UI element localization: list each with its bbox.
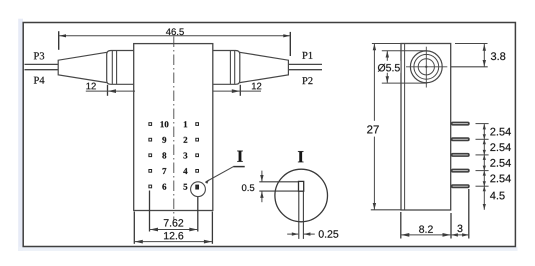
bore horizontal crosshair	[406, 66, 447, 68]
page tint bottom strip	[18, 247, 517, 251]
drawing frame	[23, 23, 515, 247]
dimension D5.5: bottom arrow	[386, 76, 389, 83]
pin row 2: number 2	[184, 137, 188, 143]
detail circle around pin 5	[191, 182, 206, 197]
dimension 12 left: arrow	[108, 89, 116, 93]
detail label underline	[233, 166, 244, 168]
dimension 0.25: left arrow	[292, 232, 299, 235]
pitch arrows tick3	[483, 150, 486, 160]
side pin 5	[451, 184, 470, 188]
pin row 3: square 3	[196, 154, 199, 157]
dimension 27: top arrow	[373, 44, 376, 51]
left collimator cone	[58, 52, 107, 82]
pin pitch extension tick 2	[476, 138, 489, 140]
pin row 1: number 1	[184, 121, 187, 127]
dimension D5.5: value backing	[377, 61, 401, 73]
pitch arrows tick2	[483, 134, 486, 144]
dimension 0.25: right pin-edge extension	[302, 191, 304, 239]
dimension 12.6: dimension line	[134, 241, 212, 243]
dimension 8.2: right arrow	[443, 233, 451, 237]
dimension 0.5: lower leader	[261, 191, 263, 202]
dimension 12.6: left extension line	[133, 212, 135, 244]
dimension 0.25: value	[319, 230, 339, 237]
pin row 5: number 5	[184, 184, 188, 190]
dimension D5.5: bottom extension line	[382, 82, 428, 84]
dimension 0.5: upper leader	[261, 171, 263, 182]
dimension 27: top extension line	[372, 43, 403, 45]
dimension 0.5: value	[242, 184, 254, 191]
label P3	[34, 52, 44, 59]
dimension 12.6: right extension line	[211, 212, 213, 244]
right sleeve line 2	[229, 51, 231, 85]
dimension 27: bottom arrow	[373, 203, 376, 210]
dimension 3.8: top extension line	[455, 43, 488, 45]
side bottom: right extension line (pin tips)	[468, 189, 470, 239]
dimension D5.5: top extension line	[382, 50, 428, 52]
dimension 2.54 value 3	[490, 159, 511, 167]
pin pitch extension tick 4	[476, 170, 489, 172]
left collimator sleeve	[107, 51, 134, 85]
dimension 12.6: left arrow	[135, 240, 143, 244]
label P1	[302, 52, 312, 59]
dimension 12 right: dimension line	[213, 90, 262, 92]
collimator bore middle circle	[414, 54, 439, 79]
dimension 0.25: right arrow	[304, 232, 311, 235]
dimension 2.54 value 2	[490, 143, 511, 151]
side bottom: left extension line	[400, 212, 402, 239]
dimension 3.8: value	[491, 52, 505, 60]
dimension 0.5: top extension line	[259, 181, 298, 183]
dimension 12.6: right arrow	[204, 240, 212, 244]
left sleeve line 1	[111, 51, 113, 85]
pitch arrow top	[483, 124, 486, 130]
page tint left strip	[18, 19, 23, 251]
dimension 0.5: upper arrow	[260, 175, 263, 182]
right sleeve line 1	[234, 51, 236, 85]
pin row 4: square 7	[149, 170, 152, 173]
bore center dot	[425, 66, 427, 68]
pitch arrows tick5	[483, 181, 486, 191]
dimension 27: dimension line lower segment	[373, 137, 375, 210]
right collimator sleeve	[213, 51, 240, 85]
dimension 46.5: left extension line	[58, 31, 60, 50]
dimension 46.5: left arrow	[59, 34, 66, 37]
pin pitch dimension line	[483, 124, 485, 210]
dimension 7.62: right arrow	[189, 228, 197, 232]
side pin 2	[451, 137, 470, 141]
dimension 3: value	[457, 225, 462, 232]
collimator bore outer circle	[410, 51, 442, 83]
pin row 5: number 6	[162, 184, 166, 190]
dimension 3: left arrow	[451, 233, 458, 236]
side view body outline	[401, 44, 451, 211]
pin pitch extension tick 5	[476, 185, 489, 187]
pin row 5: square 5	[196, 185, 199, 189]
fiber pigtail P2	[289, 69, 322, 71]
pitch arrow bottom	[483, 204, 486, 210]
dimension 27: value	[367, 125, 379, 133]
side pin 1	[451, 122, 470, 126]
pin row 5: square 6	[149, 185, 152, 188]
dimension 8.2: dimension line	[401, 234, 451, 236]
dimension 12 left: extension line	[107, 85, 109, 96]
dimension 8.2: left arrow	[401, 233, 409, 237]
label P2	[302, 77, 312, 84]
pin row 4: square 4	[196, 170, 199, 173]
dimension 7.62: left extension line	[149, 191, 151, 232]
dimension 8.2: value	[419, 225, 433, 232]
dimension 12 right: value	[252, 83, 261, 90]
pin pitch extension tick 1	[476, 123, 489, 125]
pitch arrows tick4	[483, 166, 486, 176]
dimension 7.62: right extension line	[197, 197, 199, 232]
dimension 3: dimension line	[451, 234, 469, 236]
dimension 0.5: lower arrow	[260, 191, 263, 198]
switch body outline (top view)	[134, 44, 213, 211]
dimension 4.5 value	[490, 192, 505, 200]
dimension 3.8: bottom extension line	[451, 66, 488, 68]
dimension 0.5: bottom extension line	[259, 190, 298, 192]
dimension 7.62: value	[164, 219, 183, 226]
pin row 2: square 9	[149, 138, 152, 141]
dimension 7.62: left arrow	[150, 228, 158, 232]
collimator bore inner circle	[418, 59, 434, 75]
pin row 2: square 2	[196, 138, 199, 141]
pin row 3: number 8	[162, 152, 166, 158]
dimension 27: dimension line upper segment	[373, 44, 375, 121]
dimension 27 / 8.2: bottom extension line	[371, 209, 401, 211]
dimension D5.5: top arrow	[386, 51, 389, 58]
dimension 46.5: value	[166, 28, 184, 35]
dimension 12 right: extension line	[239, 85, 241, 96]
dimension 2.54 value 1	[490, 128, 511, 136]
pin row 2: number 9	[162, 137, 166, 143]
pin pitch extension tick 3	[476, 154, 489, 156]
dimension 12 left: dimension line	[86, 90, 135, 92]
detail view circle	[275, 169, 328, 222]
fiber pigtail P4	[25, 69, 59, 71]
dimension 46.5: right arrow	[283, 34, 290, 37]
dimension 46.5: dimension line	[59, 35, 291, 37]
left sleeve line 2	[116, 51, 118, 85]
dimension 3: right arrow	[462, 233, 469, 236]
vertical centerline	[173, 37, 175, 221]
dimension 3.8: dimension line	[483, 44, 485, 67]
dimension 3.8: bottom arrow	[483, 60, 486, 67]
pin row 4: number 7	[163, 168, 167, 174]
pin row 1: number 10	[161, 121, 169, 127]
side pin 4	[451, 169, 470, 173]
dimension 12.6: value	[164, 232, 183, 239]
leader arrowhead	[205, 179, 209, 184]
detail label I with underline	[237, 151, 242, 162]
dimension 0.25: left pin-edge extension	[298, 191, 300, 239]
dimension 2.54 value 4	[490, 175, 511, 183]
pin row 3: number 3	[183, 152, 187, 158]
pin row 4: number 4	[183, 168, 187, 174]
dimension 0.25: left leader	[287, 233, 298, 235]
dimension 0.25: right leader	[304, 233, 315, 235]
pin row 1: square 1	[196, 123, 199, 126]
dimension 12 left: value	[86, 83, 95, 90]
label P4	[34, 77, 45, 84]
dimension 7.62: dimension line	[150, 229, 198, 231]
fiber pigtail P3	[25, 63, 59, 65]
dimension D5.5: dimension line	[386, 51, 388, 83]
side view inner lip line	[404, 44, 406, 211]
pin row 1: square 10	[149, 123, 152, 126]
dimension 12 right: arrow	[232, 89, 240, 93]
side bottom: middle extension line	[450, 213, 452, 239]
dimension 3.8: top arrow	[483, 44, 486, 51]
dimension 46.5: right extension line	[289, 32, 291, 56]
fiber pigtail P1	[289, 63, 322, 65]
bore vertical crosshair	[425, 47, 427, 88]
pin row 3: square 8	[149, 154, 152, 157]
right collimator cone	[240, 52, 289, 82]
dimension D5.5: value	[378, 64, 400, 72]
detail view label I	[298, 151, 303, 162]
leader line to detail label I	[206, 167, 234, 182]
side pin 3	[451, 153, 470, 157]
detail pin cross-section	[299, 181, 304, 191]
